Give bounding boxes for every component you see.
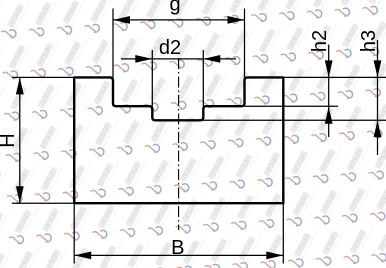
extension line: top surface level, left (for H) [12, 76, 74, 78]
dimension h2 line [328, 45, 330, 138]
extension line: B right, below block [282, 203, 284, 263]
dimension h3 line [377, 40, 379, 155]
centerline (dash-dot) [178, 58, 180, 230]
extension line: h2 level (notch floor) to right [245, 105, 339, 107]
svg-text:h3: h3 [358, 30, 380, 52]
extension line: d2 left [151, 50, 153, 106]
dimension B line [74, 254, 283, 256]
extension line: B left, below block [73, 203, 75, 263]
extension line: bottom level, left (for H) [12, 202, 74, 204]
svg-text:B: B [171, 237, 184, 259]
extension line: g right, above top surface [244, 9, 246, 78]
profile outline of rail cross-section [74, 77, 283, 203]
dimension d2 line [121, 58, 236, 60]
svg-text:h2: h2 [309, 30, 331, 52]
dimension H line [19, 77, 21, 203]
dimension g line [113, 19, 245, 21]
svg-text:g: g [169, 0, 180, 16]
extension line: h3 level (slot bottom) to right [203, 119, 386, 121]
svg-text:H: H [0, 133, 19, 147]
extension line: d2 right [202, 50, 204, 106]
svg-text:d2: d2 [159, 37, 181, 59]
extension line: g left, above top surface [112, 9, 114, 78]
extension line: top surface level, right (for h2,h3) [283, 76, 386, 78]
